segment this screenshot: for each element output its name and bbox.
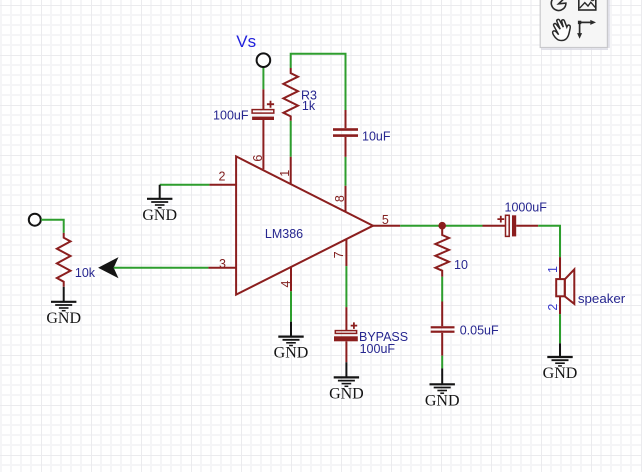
speaker pin2 stub [559,296,561,314]
wire 1000uF to speaker [538,226,560,257]
svg-text:100uF: 100uF [213,108,249,122]
terminal Vs [257,53,271,67]
label R3 [301,89,317,103]
capacitor C4 0.05uF [431,302,455,356]
toolbar icon rotate [551,0,566,10]
pin number 8 [333,195,347,202]
label 1000uF [505,201,548,215]
wire speaker to gnd [559,314,561,343]
pin 3 stub [208,267,236,269]
capacitor C2 10uF [333,110,358,157]
capacitor C1 100uF [252,89,274,169]
svg-text:Vs: Vs [236,32,256,51]
label 100uF bypass [360,342,396,356]
svg-text:1: 1 [278,170,292,177]
svg-text:6: 6 [251,155,265,162]
svg-text:10: 10 [454,258,468,272]
wire 10uF to pin8 [345,157,347,186]
pin number 4 [279,280,293,287]
svg-text:GND: GND [425,392,460,409]
pin 7 stub [345,239,347,266]
toolbar panel [540,0,609,50]
label speaker [578,291,626,306]
svg-text:10uF: 10uF [362,130,391,144]
pin 1 stub [290,157,292,184]
svg-text:speaker: speaker [578,291,626,306]
svg-text:7: 7 [332,251,346,258]
label 0.05uF [460,324,499,338]
wire Vs terminal to C1 [262,67,264,89]
pin 8 stub [345,186,347,212]
svg-text:1000uF: 1000uF [505,201,548,215]
wire output net [400,225,482,227]
label BYPASS [359,330,408,344]
ground 0.05uF [425,368,460,409]
capacitor C3 BYPASS 100uF [334,307,358,362]
toolbar icon move [577,20,596,39]
label LM386 [265,227,303,241]
ground pin4 [274,322,309,362]
arrow probe pin3 [98,257,118,278]
svg-text:GND: GND [274,345,309,362]
net label Vs [236,32,256,51]
wire input to R2 [41,220,64,233]
toolbar icon hand [553,19,571,40]
wire R3 to pin1 [290,121,292,157]
svg-text:100uF: 100uF [360,342,396,356]
terminal input [29,214,41,226]
label 1k [302,99,316,113]
toolbar icon image [579,0,596,10]
ground bypass [329,362,364,402]
pin number 6 [251,155,265,162]
label 10k [75,266,96,280]
pin 4 stub [290,267,292,291]
svg-text:2: 2 [546,304,560,311]
wire pin2 to gnd [160,184,210,186]
svg-text:10k: 10k [75,266,96,280]
value label 10uF [362,130,391,144]
speaker LS1 [556,269,574,304]
pin number 1 [278,170,292,177]
value label 100uF [213,108,249,122]
wire cap to gnd [441,356,443,369]
svg-text:GND: GND [329,385,364,402]
svg-text:2: 2 [219,169,226,183]
svg-text:8: 8 [333,195,347,202]
wire top feedback [291,54,346,110]
svg-text:LM386: LM386 [265,227,303,241]
resistor R3 [283,68,298,121]
svg-text:1k: 1k [302,99,316,113]
wire pin4 to gnd [290,291,292,321]
pin number 3 [219,257,226,271]
ground input [46,287,81,327]
resistor R2 10k [57,233,71,287]
pin number 5 [382,213,389,227]
ground speaker [543,343,578,382]
ground pin2 [142,185,177,224]
label 10 [454,258,468,272]
pin 5 stub [373,225,400,227]
speaker pin1 stub [559,257,561,279]
pin 2 stub [209,184,236,186]
capacitor C5 1000uF [483,215,539,236]
pin number 7 [332,251,346,258]
svg-text:1: 1 [546,266,560,273]
wire pin3 [114,267,209,269]
op-amp U1 LM386 [236,156,373,294]
pin number 2 [219,169,226,183]
wire 10 ohm to cap [441,277,443,302]
junction dot [438,222,446,230]
svg-text:GND: GND [46,310,81,327]
wire pin7 to bypass cap [345,266,347,307]
svg-text:GND: GND [543,365,578,382]
speaker pin number 2 [546,304,560,311]
svg-text:GND: GND [142,207,177,224]
speaker pin number 1 [546,266,560,273]
svg-text:0.05uF: 0.05uF [460,324,499,338]
resistor R1 10 [435,229,449,277]
